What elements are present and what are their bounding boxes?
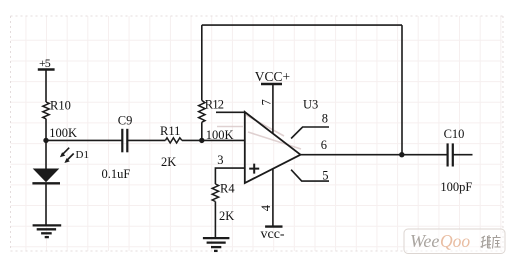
resistor R12 <box>199 98 234 143</box>
svg-text:U3: U3 <box>303 98 318 112</box>
pin 1 stub <box>216 111 245 113</box>
wire node B up to R12 <box>201 122 203 140</box>
node A junction <box>43 138 48 143</box>
svg-text:7: 7 <box>259 99 273 105</box>
power +5 <box>38 56 55 70</box>
svg-text:100K: 100K <box>49 126 77 140</box>
resistor R10 <box>43 98 77 140</box>
svg-text:VCC+: VCC+ <box>255 69 290 84</box>
op-amp U3 <box>245 98 318 184</box>
photodiode D1 <box>32 148 89 184</box>
wire node A to D1 <box>45 140 47 168</box>
wire R10 to node A <box>45 119 47 141</box>
ground (left) <box>33 225 62 237</box>
wire R4 to ground <box>214 202 216 238</box>
vcc- supply pin 4 <box>259 169 285 242</box>
wire R11 to node B <box>182 139 245 141</box>
wire D1 to ground <box>45 183 47 225</box>
svg-text:R12: R12 <box>205 98 224 112</box>
wire node A to C9 <box>46 139 122 141</box>
svg-text:100K: 100K <box>206 128 234 142</box>
resistor R11 <box>160 124 182 169</box>
wire C9 to R11 <box>127 139 165 141</box>
svg-text:4: 4 <box>259 204 273 211</box>
svg-text:6: 6 <box>321 138 327 152</box>
feedback wire (top rail) <box>202 24 402 26</box>
wire feedback down to output <box>401 25 403 155</box>
svg-text:Wee: Wee <box>410 231 439 251</box>
node C junction (output) <box>399 152 404 157</box>
svg-text:C10: C10 <box>444 127 465 141</box>
svg-text:R10: R10 <box>50 98 71 112</box>
svg-text:D1: D1 <box>76 149 89 161</box>
svg-text:2K: 2K <box>161 155 176 169</box>
svg-text:8: 8 <box>322 112 328 126</box>
watermark WeeQoo box <box>404 229 505 254</box>
svg-text:R4: R4 <box>220 182 235 196</box>
svg-text:100pF: 100pF <box>440 180 472 194</box>
VCC+ supply pin 7 <box>255 69 290 133</box>
svg-text:C9: C9 <box>118 114 133 128</box>
svg-text:+5: +5 <box>39 56 51 70</box>
ground (R4) <box>203 238 230 251</box>
wire C10 right stub <box>453 154 473 156</box>
node B junction <box>199 138 204 143</box>
capacitor C9 <box>102 114 133 181</box>
resistor R4 <box>212 182 235 224</box>
wire +5 bar to R10 <box>45 70 47 103</box>
svg-text:3: 3 <box>217 153 223 167</box>
capacitor C10 <box>440 127 472 194</box>
pin 3 wire <box>215 153 244 184</box>
svg-text:5: 5 <box>322 168 328 182</box>
svg-text:R11: R11 <box>160 124 180 138</box>
wire R12 to feedback rail <box>201 25 203 100</box>
svg-text:0.1uF: 0.1uF <box>102 167 131 181</box>
pin 8 stub <box>291 112 329 139</box>
output wire pin 6 to C10 <box>301 154 448 156</box>
watermark arrow over op-amp <box>217 115 301 149</box>
svg-text:Qoo: Qoo <box>440 231 470 251</box>
svg-text:2K: 2K <box>219 209 234 223</box>
svg-text:vcc-: vcc- <box>261 227 285 242</box>
pin 5 stub <box>291 168 329 182</box>
